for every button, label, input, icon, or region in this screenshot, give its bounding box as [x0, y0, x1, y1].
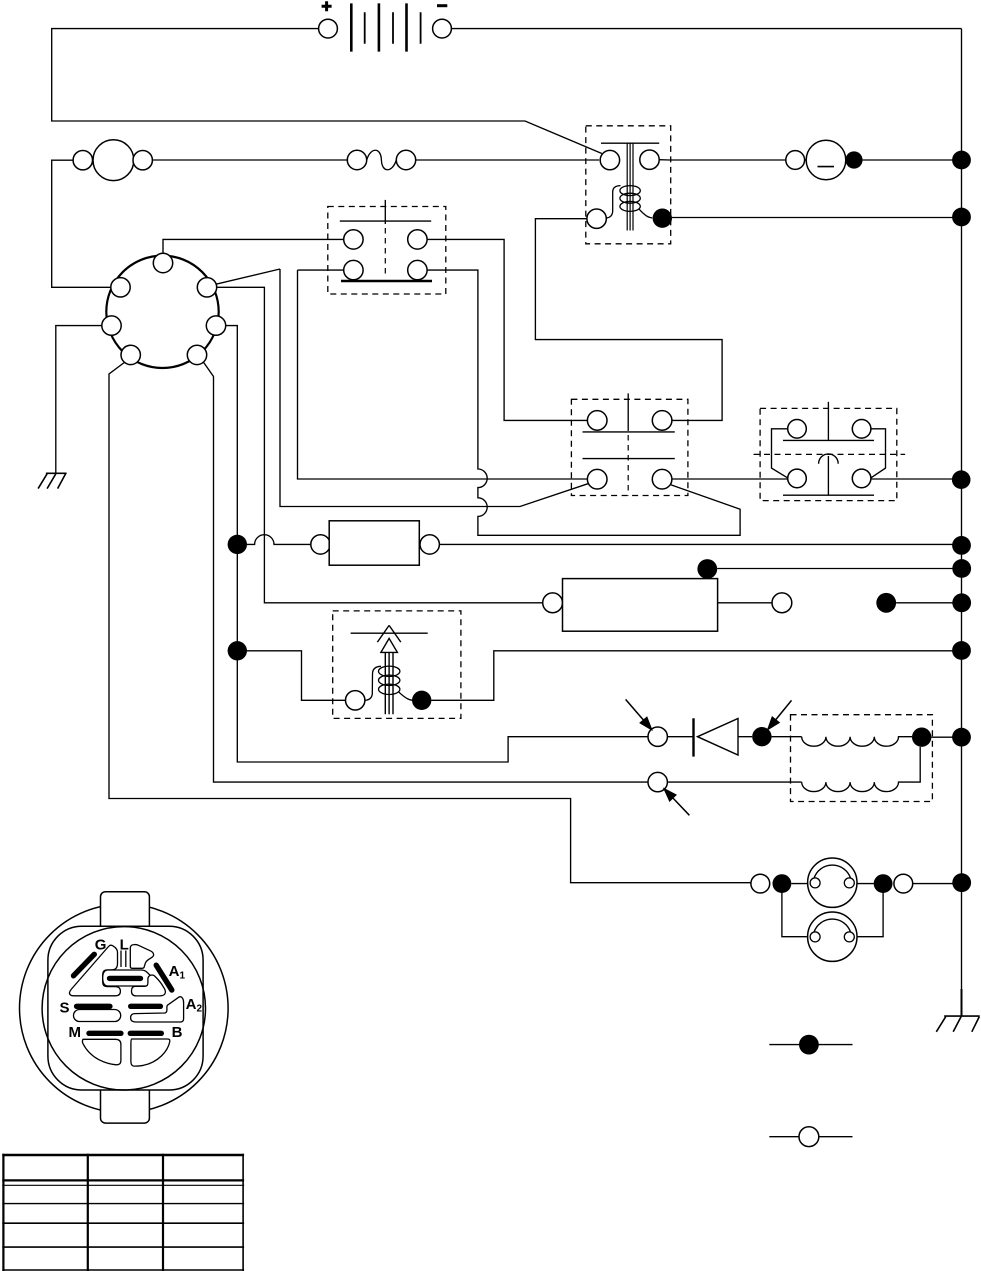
junction bus fuel	[952, 641, 971, 660]
battery B1	[319, 1, 452, 51]
ignition pin upper-right	[197, 278, 216, 297]
battery negative terminal	[433, 19, 452, 38]
solenoid left contact	[600, 150, 619, 169]
ignition pin mid-left	[102, 316, 121, 335]
junction bus alternator	[952, 728, 971, 747]
connector lighting circuit	[648, 772, 667, 791]
wire breaker to bus	[439, 543, 961, 545]
solenoid coil	[606, 186, 652, 218]
alternator lighting coil	[802, 747, 921, 792]
wire light switch to seat switch upper	[427, 239, 587, 420]
ground chassis left	[38, 473, 67, 488]
keyway boot slot	[69, 945, 120, 996]
fuel solenoid Y1 dashed box	[333, 611, 461, 719]
keyway stadium slot	[74, 1010, 121, 1022]
terminal G bar	[74, 954, 95, 976]
ignition pin upper-left	[111, 278, 130, 297]
wire diode to splice	[667, 736, 752, 738]
junction bus brake	[952, 470, 971, 489]
headlamp L2	[808, 912, 857, 961]
circuit breaker CB1	[311, 521, 440, 565]
wire hour meter to bus	[863, 159, 962, 161]
key plug square shell	[48, 926, 203, 1090]
wire fuse to solenoid contact	[416, 159, 599, 161]
junction bus top	[952, 151, 971, 170]
keyway center slot	[103, 970, 152, 986]
solenoid contact bar	[601, 142, 659, 144]
connector headlight right	[894, 874, 913, 893]
splice module top to bus	[697, 559, 717, 579]
light switch actuator	[384, 200, 386, 224]
junction fuel solenoid feed	[228, 641, 247, 660]
alternator G1 dashed box	[791, 715, 933, 802]
connector headlight feed	[751, 874, 770, 893]
ground chassis right stem	[961, 989, 963, 1016]
terminal A2 bar	[131, 1004, 161, 1009]
wire fuel solenoid to bus	[431, 651, 961, 701]
wire ignition diagonal branch down	[280, 269, 590, 507]
fuel solenoid stop bar	[351, 632, 428, 634]
fuel solenoid plunger arrow	[377, 625, 400, 714]
svg-text:B: B	[172, 1024, 183, 1041]
splice bus side	[876, 593, 896, 613]
wire ammeter to ignition switch pin	[52, 160, 111, 287]
brake switch side links	[772, 429, 886, 479]
junction circuit breaker feed	[228, 535, 247, 554]
wire headlight branch lower	[782, 884, 883, 937]
wire to fuel solenoid	[247, 651, 346, 701]
diode D1	[694, 718, 739, 756]
splice diode output	[752, 727, 771, 746]
ammeter M1	[73, 140, 152, 181]
fuel solenoid left terminal	[346, 691, 365, 710]
fuse F1	[347, 150, 415, 170]
wire solenoid splice to bus	[672, 217, 962, 219]
wiring code table	[2, 1154, 244, 1271]
svg-text:G: G	[95, 937, 107, 954]
ground chassis right	[936, 1016, 979, 1032]
terminal center bar	[110, 976, 141, 981]
junction bus module	[952, 593, 971, 612]
splice at solenoid coil	[653, 209, 672, 228]
wire splice to charge coil	[772, 736, 802, 738]
legend connector symbol	[769, 1127, 852, 1147]
wire light switch lower-left to seat switch lower-left	[298, 270, 588, 479]
wire ignition top pin to light switch	[163, 239, 344, 253]
keyway bottom left slot	[82, 1039, 120, 1065]
battery minus label	[437, 4, 447, 7]
wire breaker feed with hop	[247, 535, 311, 545]
seat switch S3 dashed box	[571, 399, 688, 495]
terminal B bar	[130, 1031, 161, 1036]
junction bus headlight	[952, 873, 971, 892]
connector module output	[772, 593, 792, 613]
headlamp L1	[808, 858, 857, 907]
wire ignition mid-left to ground	[56, 326, 102, 474]
wire alternator splice to bus	[931, 736, 961, 738]
connector engine feed	[648, 727, 667, 746]
terminal M bar	[89, 1031, 121, 1036]
wire ignition lower-left to lights	[109, 363, 751, 883]
hour meter M2	[786, 140, 863, 180]
battery plus label	[322, 1, 332, 11]
brake switch S4 dashed box	[760, 408, 897, 500]
keyway A2 slot	[131, 997, 184, 1022]
keyway channel	[121, 951, 126, 968]
solenoid coil terminal	[587, 209, 606, 228]
junction bus breaker	[952, 536, 971, 555]
key plug inner circle	[42, 927, 205, 1090]
terminal S bar	[77, 1004, 110, 1009]
solenoid right contact	[640, 150, 659, 169]
light switch S1 dashed box	[328, 207, 446, 295]
arrow connector 3	[664, 789, 689, 815]
arrow connector 2	[768, 700, 792, 729]
wire ignition to light switch lower-left	[216, 269, 344, 284]
junction bus solenoid	[952, 208, 971, 227]
junction bus module top	[952, 559, 971, 578]
fuel solenoid coil	[365, 666, 413, 700]
solenoid K1 dashed box	[586, 126, 671, 244]
keyway L slot	[130, 945, 153, 969]
ignition switch S2 body	[106, 256, 218, 368]
brake switch terminals	[788, 420, 807, 439]
ignition pin lower-left	[121, 345, 140, 364]
wire ignition mid-right down	[226, 326, 648, 762]
interlock module U1	[543, 579, 718, 632]
svg-text:S: S	[60, 1000, 70, 1017]
battery positive terminal	[319, 19, 338, 38]
wire ammeter to fuse	[152, 159, 347, 161]
wire module splice to bus	[717, 568, 961, 570]
ignition pin mid-right	[206, 316, 225, 335]
seat switch actuator	[627, 393, 629, 431]
solenoid plunger	[627, 143, 633, 230]
ignition pin lower-right	[187, 345, 206, 364]
battery plates	[351, 3, 406, 51]
arrow connector 1	[626, 699, 652, 729]
splice headlight left	[773, 874, 792, 893]
wire module output connector	[718, 602, 772, 604]
key plug bottom tab	[101, 1084, 150, 1123]
keyway bottom right slot	[131, 1039, 170, 1066]
wire ignition lower-right to alternator	[204, 363, 802, 783]
light switch bottom bar	[341, 280, 432, 283]
wire battery positive to solenoid	[52, 29, 602, 154]
seat switch terminals	[587, 411, 607, 431]
key switch connector plug body	[20, 904, 229, 1113]
wire to bus	[913, 883, 962, 885]
wire solenoid coil to seat switch	[535, 219, 722, 421]
wire ignition upper-right branch	[217, 287, 543, 603]
brake switch actuator	[827, 402, 829, 441]
keyway flag slot	[132, 975, 166, 996]
terminal A1 bar	[156, 965, 172, 990]
splice headlight right	[874, 874, 893, 893]
svg-text:L: L	[120, 937, 129, 954]
legend splice symbol	[769, 1035, 852, 1055]
svg-text:M: M	[69, 1024, 82, 1041]
wire light switch lower-right down with hops	[427, 270, 740, 535]
splice alternator output	[912, 728, 931, 747]
alternator charge coil	[802, 737, 912, 747]
wire brake switch to bus	[871, 478, 961, 480]
right bus wire	[961, 29, 963, 1017]
key plug top tab	[101, 892, 150, 932]
fuel solenoid splice	[412, 691, 431, 710]
wire battery negative to right bus	[451, 28, 961, 30]
wire splice to bus	[896, 602, 961, 604]
light switch terminals	[344, 230, 363, 249]
wire headlight row	[791, 883, 874, 885]
wire seat switch to brake switch	[672, 478, 788, 480]
ignition pin top	[153, 253, 172, 272]
wire solenoid to hour meter	[659, 159, 806, 161]
